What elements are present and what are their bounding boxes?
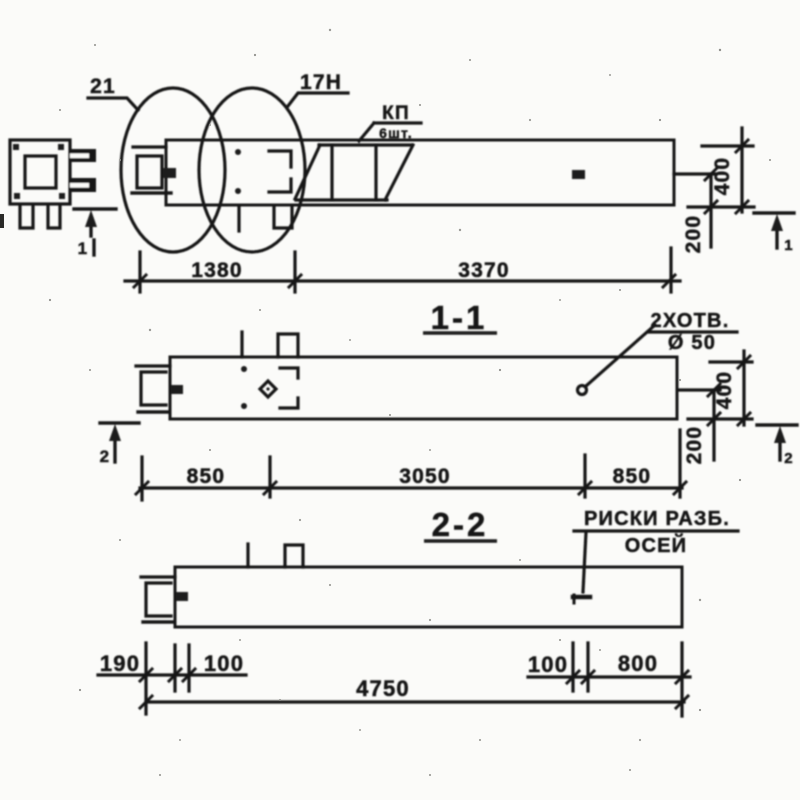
dim row 4750 bbox=[146, 700, 684, 703]
ticks dim row view1-1 bbox=[136, 482, 686, 494]
rebar dots view 1-1 bbox=[241, 366, 247, 409]
dim row view2-2 right segment bbox=[528, 675, 690, 678]
left end plate view 1-1 bbox=[136, 364, 170, 367]
ext pair right bbox=[573, 643, 588, 691]
ticks dim row view2-2 bbox=[140, 669, 688, 683]
end flange plate inner square bbox=[25, 156, 56, 188]
console truss (КП) top chord bbox=[319, 143, 412, 146]
ellipse callout right bbox=[199, 88, 305, 252]
riska mark view 2-2 bbox=[573, 595, 590, 600]
beam outline view 1 bbox=[166, 140, 674, 205]
ext pair left bbox=[175, 645, 189, 691]
flange leg right bbox=[48, 205, 60, 228]
svg-text:3050: 3050 bbox=[399, 465, 451, 488]
left end plate view 2-2 bbox=[141, 575, 175, 578]
2ХОТВ underline bbox=[648, 330, 737, 333]
flange leg left bbox=[20, 205, 33, 228]
section marker 2 (right) bbox=[757, 423, 797, 426]
scan edge artifact bbox=[0, 214, 4, 228]
РИСКИ РАЗБ underline bbox=[574, 529, 738, 532]
top square hook view 2-2 bbox=[285, 545, 303, 567]
section marker 2 (left) bbox=[100, 421, 139, 424]
svg-text:200: 200 bbox=[683, 426, 706, 465]
dim ext right top view1 bbox=[702, 144, 753, 147]
rebar dots view 1 bbox=[235, 149, 241, 194]
dim ext right mid view1-1 bbox=[680, 388, 720, 391]
top pin view 2-2 bbox=[246, 544, 249, 567]
console truss left diagonal bbox=[295, 145, 320, 199]
beam left end embed detail bbox=[133, 145, 166, 148]
dim line 200 view1-1 bbox=[712, 390, 715, 460]
dim line 400 view1-1 bbox=[742, 351, 745, 425]
dim ext 850 right bbox=[678, 430, 681, 497]
riska leader bbox=[583, 532, 586, 592]
svg-text:2: 2 bbox=[784, 450, 794, 467]
pin below beam view 1 bbox=[237, 206, 240, 231]
console truss vertical 2 bbox=[374, 145, 377, 200]
ext 190 bbox=[144, 643, 147, 714]
ext right end bbox=[680, 643, 683, 716]
dim line 400 view1 bbox=[740, 128, 743, 212]
ticks view1 right bbox=[705, 140, 748, 213]
end flange plate outer square bbox=[10, 140, 70, 204]
svg-text:1: 1 bbox=[78, 239, 89, 258]
riska mark view 1 bbox=[572, 170, 585, 179]
section marker 1 (left) tail stroke bbox=[92, 240, 95, 255]
dim row view2-2 left segment bbox=[98, 673, 246, 676]
dim ext 850/3050 bbox=[268, 457, 271, 497]
svg-text:1: 1 bbox=[784, 237, 794, 254]
svg-text:РИСКИ РАЗБ.: РИСКИ РАЗБ. bbox=[584, 508, 730, 530]
embed bracket view 1 bbox=[269, 151, 291, 192]
hole 2x otv bbox=[578, 386, 587, 395]
diamond mark view 1-1 bbox=[260, 381, 276, 397]
flange top prong bbox=[70, 149, 96, 162]
svg-text:200: 200 bbox=[682, 215, 705, 254]
svg-text:3370: 3370 bbox=[458, 259, 510, 282]
svg-text:КП: КП bbox=[382, 103, 410, 124]
section marker 1 (right) bbox=[754, 211, 794, 214]
hanger square below beam view 1 bbox=[274, 206, 292, 228]
dim ext right mid view1 bbox=[674, 172, 716, 175]
console truss right diagonal bbox=[385, 145, 413, 200]
dim ext right top view1-1 bbox=[710, 360, 752, 363]
ticks view1-1 right bbox=[708, 356, 750, 425]
dim row view1 bbox=[125, 279, 680, 282]
hole leader bbox=[586, 325, 655, 386]
svg-text:850: 850 bbox=[613, 465, 652, 488]
svg-text:100: 100 bbox=[204, 651, 244, 676]
svg-text:21: 21 bbox=[90, 75, 116, 98]
КП label leader bbox=[359, 123, 421, 141]
svg-text:2ХОТВ.: 2ХОТВ. bbox=[651, 310, 730, 332]
dim ext 850 left bbox=[140, 457, 143, 500]
dim ext 1380/3370 middle bbox=[293, 252, 296, 292]
svg-text:17Н: 17Н bbox=[300, 71, 342, 94]
svg-text:Ø 50: Ø 50 bbox=[668, 332, 716, 354]
svg-text:400: 400 bbox=[711, 157, 734, 196]
label 17Н leader bbox=[288, 93, 348, 106]
beam outline view 2-2 bbox=[175, 567, 682, 627]
svg-text:2: 2 bbox=[100, 447, 111, 466]
section marker 1 (left) line bbox=[74, 207, 116, 210]
embed bracket view 1-1 bbox=[280, 368, 298, 408]
svg-text:1380: 1380 bbox=[191, 259, 243, 282]
svg-text:6шт.: 6шт. bbox=[379, 125, 413, 141]
svg-text:1-1: 1-1 bbox=[431, 299, 488, 336]
console truss bottom chord bbox=[296, 198, 387, 201]
title 1-1 underline bbox=[423, 331, 497, 334]
dim line 200 view1 bbox=[709, 174, 712, 247]
svg-text:4750: 4750 bbox=[356, 676, 410, 701]
ticks dim row view1 bbox=[134, 275, 675, 287]
svg-text:800: 800 bbox=[618, 651, 658, 676]
svg-text:400: 400 bbox=[713, 371, 736, 410]
dim row view1-1 bbox=[140, 486, 682, 489]
title 2-2 underline bbox=[424, 539, 497, 542]
top pin view 1-1 bbox=[240, 332, 243, 357]
svg-text:ОСЕЙ: ОСЕЙ bbox=[625, 533, 688, 557]
svg-text:2-2: 2-2 bbox=[432, 506, 489, 543]
section marker 1 (left) arrow bbox=[89, 226, 92, 236]
ticks 4750 bbox=[140, 696, 688, 708]
beam outline view 1-1 bbox=[170, 357, 677, 419]
flange bottom prong bbox=[70, 178, 96, 192]
dim ext 3050/850 bbox=[583, 455, 586, 497]
dim ext right bottom view1 bbox=[688, 205, 754, 208]
label 21 leader bbox=[88, 98, 138, 110]
dim ext 1380 left bbox=[138, 252, 141, 292]
dim ext 3370 right bbox=[669, 248, 672, 292]
ellipse callout left bbox=[121, 88, 225, 252]
svg-text:100: 100 bbox=[528, 652, 568, 677]
top square hook view 1-1 bbox=[278, 334, 298, 357]
svg-text:190: 190 bbox=[100, 651, 140, 676]
console truss vertical 1 bbox=[330, 145, 333, 200]
flange bolt marks bbox=[13, 144, 65, 199]
svg-text:850: 850 bbox=[187, 465, 226, 488]
dim ext right bottom view1-1 bbox=[688, 417, 752, 420]
